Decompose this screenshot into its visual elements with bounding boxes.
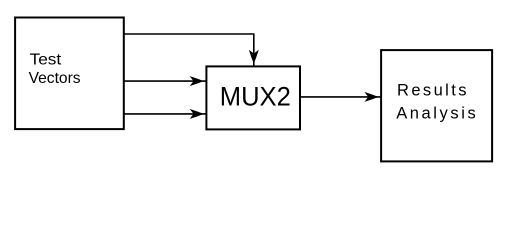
wire: Test Vectors top output, right then down into MUX2 top (select line): [125, 34, 254, 66]
svg-text:MUX2: MUX2: [220, 82, 291, 112]
svg-text:Vectors: Vectors: [29, 70, 81, 87]
wire: Test Vectors bottom output into MUX2 left (input B): [125, 113, 207, 115]
box: Test Vectors: [15, 18, 124, 130]
wire: Test Vectors middle output into MUX2 left (input A): [125, 80, 207, 82]
wire: MUX2 output into Results Analysis: [301, 96, 381, 98]
svg-text:Test: Test: [30, 51, 62, 68]
box: MUX2: [206, 66, 300, 129]
svg-text:Results: Results: [397, 82, 467, 100]
svg-text:Analysis: Analysis: [396, 104, 476, 122]
box: Results Analysis: [381, 50, 492, 161]
